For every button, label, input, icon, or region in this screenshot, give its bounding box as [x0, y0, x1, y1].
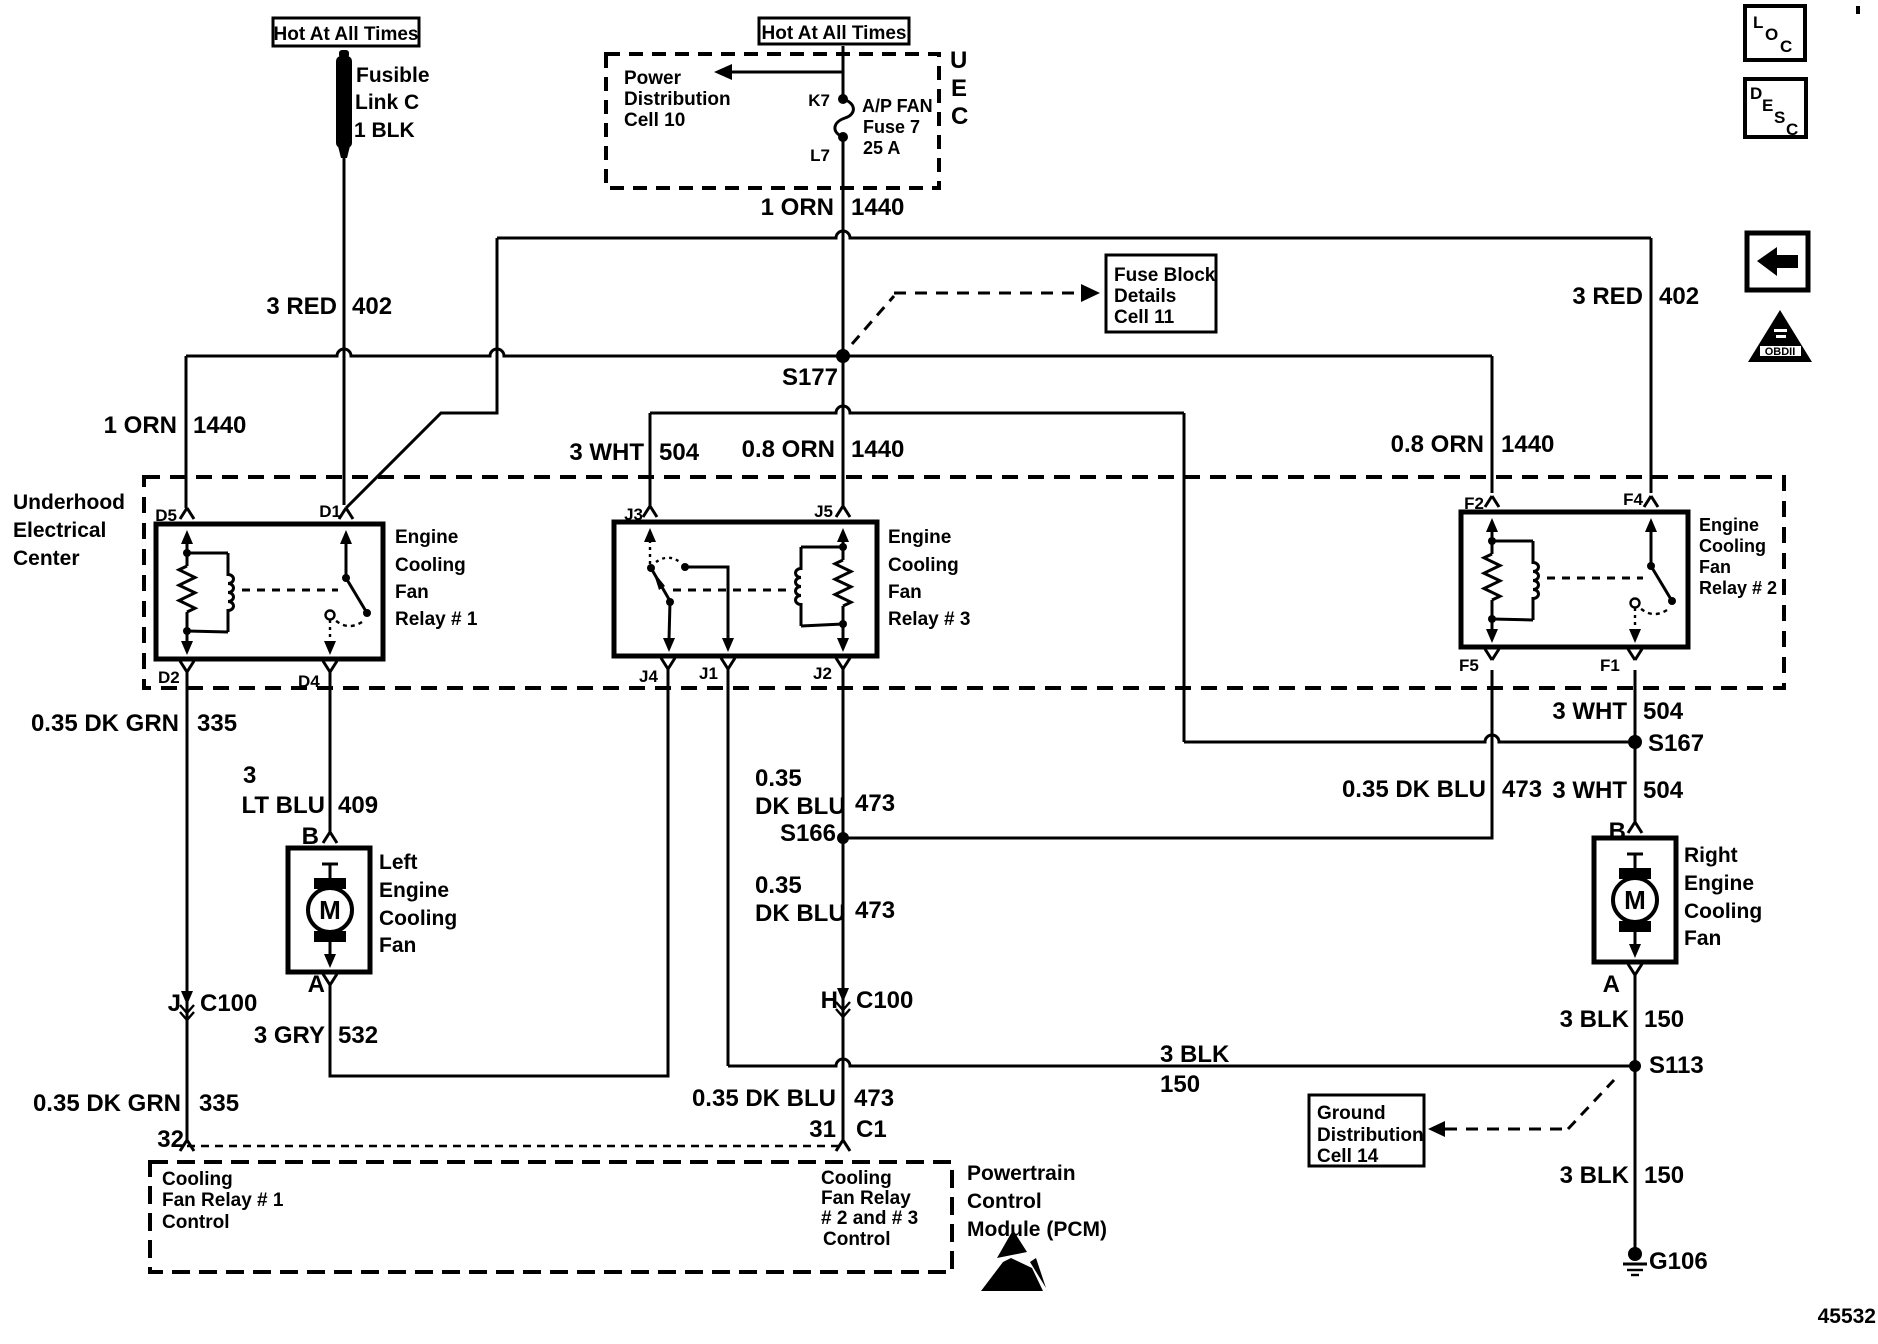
svg-text:Engine: Engine: [1699, 515, 1759, 535]
left fan pin B: [323, 832, 337, 843]
label 0.8 ORN 1440 (right): [1391, 431, 1555, 458]
label box Fuse Block Details Cell 11: [1106, 255, 1216, 332]
svg-text:Fuse 7: Fuse 7: [863, 117, 920, 137]
motor M: Left Engine Cooling Fan: [288, 848, 370, 972]
svg-text:Fuse Block: Fuse Block: [1114, 265, 1216, 286]
wire: right drop to relay2 F4: [1650, 238, 1653, 493]
svg-text:DK BLU: DK BLU: [755, 900, 846, 927]
svg-text:Cooling: Cooling: [379, 907, 457, 930]
label 0.35 DK BLU 473 (above S166): [755, 765, 895, 820]
svg-text:Cooling: Cooling: [162, 1169, 233, 1190]
Underhood Electrical Center dashed box: [144, 477, 1784, 688]
switch rest contact to J1: [656, 558, 681, 563]
svg-text:Cooling: Cooling: [821, 1168, 892, 1189]
wire: 3 RED 402 top horizontal run (D1/F4 feed): [497, 231, 1651, 238]
icon LOC box: [1745, 6, 1805, 60]
svg-text:Control: Control: [967, 1190, 1042, 1213]
svg-text:473: 473: [855, 790, 895, 817]
svg-text:Distribution: Distribution: [1317, 1125, 1424, 1146]
node S113: [1629, 1060, 1641, 1072]
ground G106: [1623, 1247, 1708, 1275]
svg-text:LT BLU: LT BLU: [241, 792, 325, 819]
svg-text:Ground: Ground: [1317, 1103, 1386, 1124]
svg-text:C: C: [951, 103, 968, 130]
svg-text:25 A: 25 A: [863, 138, 900, 158]
svg-text:335: 335: [197, 710, 237, 737]
label Cooling Fan Relay #1 Control: [162, 1169, 284, 1233]
wire: D2 down to PCM pin 32 (0.35 DK GRN 335): [186, 672, 189, 1140]
label Cooling Fan Relay #2 and #3 Control: [821, 1168, 918, 1250]
node S166: [837, 832, 849, 844]
relay K2: Engine Cooling Fan Relay #2 (reuse): [1461, 496, 1688, 660]
svg-text:Fan: Fan: [395, 582, 429, 603]
svg-text:J5: J5: [814, 502, 833, 521]
wire: 1 ORN 1440 fuse output down to S177 and on to relay3 J5: [842, 137, 845, 506]
svg-text:Cell 11: Cell 11: [1114, 307, 1175, 328]
wire: J2 down through S166, H C100 to PCM pin 31: [842, 668, 845, 1140]
relay switch: [644, 528, 656, 542]
wire: J1 down and right to S113 (3 BLK 150): [727, 668, 730, 1066]
svg-text:3 RED: 3 RED: [1572, 283, 1643, 310]
svg-text:1 ORN: 1 ORN: [104, 412, 177, 439]
svg-text:Center: Center: [13, 547, 80, 570]
arrow to Power Distribution: [714, 64, 843, 80]
svg-text:Cell 14: Cell 14: [1317, 1146, 1379, 1167]
svg-text:Link C: Link C: [355, 91, 419, 114]
relay3 pin labels: [624, 502, 833, 686]
label Power Distribution Cell 10: [624, 68, 731, 131]
label Powertrain Control Module (PCM): [967, 1162, 1107, 1241]
svg-text:150: 150: [1644, 1162, 1684, 1189]
svg-text:Fan: Fan: [888, 582, 922, 603]
svg-text:A: A: [308, 971, 325, 998]
wire: D4 down to left fan B (3 LT BLU 409): [329, 672, 332, 832]
svg-text:150: 150: [1160, 1071, 1200, 1098]
label 1 ORN 1440: [761, 194, 905, 221]
svg-text:O: O: [1765, 25, 1778, 44]
svg-text:0.35 DK BLU: 0.35 DK BLU: [692, 1085, 836, 1112]
svg-text:Left: Left: [379, 851, 418, 874]
svg-text:J4: J4: [639, 667, 658, 686]
pin J1 connector: [721, 658, 735, 669]
wire: right drop to relay2 F2 (0.8 ORN 1440): [1491, 356, 1494, 493]
svg-text:A: A: [1603, 971, 1620, 998]
svg-text:Cooling: Cooling: [395, 555, 466, 576]
svg-text:Fan: Fan: [379, 934, 416, 957]
svg-text:S113: S113: [1649, 1052, 1704, 1079]
svg-text:Cooling: Cooling: [1699, 536, 1766, 556]
node S177: [836, 349, 850, 363]
coil-side bottom pin: [180, 661, 194, 672]
svg-text:M: M: [1624, 885, 1646, 915]
dashed arrow Ground Distribution: [1428, 1080, 1614, 1137]
wire: 3 WHT 504 from J3 up, across, down to S167: [649, 413, 652, 506]
label 0.35 DK BLU 473 (F5): [1342, 776, 1542, 803]
svg-text:E: E: [951, 75, 967, 102]
label 3 WHT 504 (below S167): [1552, 777, 1683, 804]
actuation dashed link: [673, 589, 788, 592]
svg-text:S177: S177: [782, 364, 838, 391]
svg-text:L: L: [1753, 13, 1763, 32]
icon DESC box: [1745, 79, 1806, 139]
svg-text:1440: 1440: [851, 436, 904, 463]
svg-text:31: 31: [809, 1116, 836, 1143]
svg-text:E: E: [1762, 96, 1773, 115]
svg-text:OBDII: OBDII: [1765, 346, 1796, 358]
svg-text:J: J: [168, 990, 181, 1017]
svg-text:0.8 ORN: 0.8 ORN: [742, 436, 835, 463]
label Fusible Link C 1 BLK: [354, 64, 430, 142]
dashed arrow to Fuse Block Details: [852, 284, 1100, 344]
svg-text:Fan: Fan: [1684, 927, 1721, 950]
svg-text:D4: D4: [298, 672, 320, 691]
label Underhood Electrical Center: [13, 491, 125, 570]
svg-text:Cooling: Cooling: [888, 555, 959, 576]
svg-text:C100: C100: [856, 987, 913, 1014]
svg-text:H: H: [821, 987, 838, 1014]
svg-text:D5: D5: [155, 506, 177, 525]
svg-text:Hot At All Times: Hot At All Times: [274, 24, 419, 45]
svg-text:Cell 10: Cell 10: [624, 110, 685, 131]
svg-text:Fan Relay: Fan Relay: [821, 1188, 911, 1209]
icon warning triangle: [1748, 310, 1812, 362]
connector H C100: [821, 987, 914, 1017]
switch-side bottom pin: [323, 661, 337, 672]
wire: left drop + jog + diagonal to D1: [346, 238, 497, 508]
svg-text:473: 473: [855, 897, 895, 924]
svg-text:150: 150: [1644, 1006, 1684, 1033]
svg-text:3 BLK: 3 BLK: [1160, 1041, 1230, 1068]
svg-text:0.35 DK GRN: 0.35 DK GRN: [33, 1090, 181, 1117]
svg-text:Powertrain: Powertrain: [967, 1162, 1076, 1185]
svg-text:473: 473: [1502, 776, 1542, 803]
svg-text:Relay # 1: Relay # 1: [395, 609, 478, 630]
svg-text:Fan Relay # 1: Fan Relay # 1: [162, 1190, 284, 1211]
svg-text:1440: 1440: [851, 194, 904, 221]
svg-text:L7: L7: [810, 146, 830, 165]
relay K1: Engine Cooling Fan Relay #1: [156, 508, 383, 672]
svg-text:C: C: [1786, 120, 1798, 139]
switch-side top pin: [339, 508, 353, 519]
wire: S113 down to G106: [1634, 1066, 1637, 1250]
svg-text:S: S: [1774, 108, 1785, 127]
svg-text:Control: Control: [162, 1212, 230, 1233]
wire: battery feed into fuse box: [842, 46, 845, 99]
svg-text:335: 335: [199, 1090, 239, 1117]
relay switch: [340, 530, 352, 544]
label Engine Cooling Fan Relay #1: [395, 527, 478, 630]
UEC fuse block dashed box: [606, 54, 939, 188]
svg-text:0.8 ORN: 0.8 ORN: [1391, 431, 1484, 458]
svg-text:473: 473: [854, 1085, 894, 1112]
relay K3: Engine Cooling Fan Relay #3: [614, 506, 877, 669]
label box "Hot At All Times" (top middle): [759, 18, 909, 44]
svg-text:Relay # 2: Relay # 2: [1699, 578, 1777, 598]
relay coil: [187, 552, 228, 555]
label box Ground Distribution Cell 14: [1309, 1095, 1424, 1167]
label U E C: [950, 47, 968, 130]
PCM pin 32: [180, 1140, 194, 1151]
svg-text:3 BLK: 3 BLK: [1560, 1006, 1630, 1033]
svg-text:409: 409: [338, 792, 378, 819]
right fan pin B: [1628, 822, 1642, 833]
svg-text:F5: F5: [1459, 656, 1479, 675]
wire: left drop to relay1 D5: [185, 356, 188, 508]
svg-text:532: 532: [338, 1022, 378, 1049]
svg-text:3 WHT: 3 WHT: [569, 439, 644, 466]
right fan pin A: [1628, 964, 1642, 975]
pin J3 connector: [643, 506, 657, 517]
svg-text:Details: Details: [1114, 286, 1176, 307]
label Engine Cooling Fan Relay #3: [888, 527, 970, 630]
svg-text:A/P FAN: A/P FAN: [862, 96, 933, 116]
pin J4 connector: [661, 658, 675, 669]
ESD warning symbol: [981, 1230, 1046, 1291]
label 3 BLK 150 (fan A): [1560, 1006, 1684, 1033]
relay2 pin labels: [1459, 490, 1644, 675]
svg-text:402: 402: [1659, 283, 1699, 310]
svg-text:C1: C1: [856, 1116, 887, 1143]
wire: fusible link down to relay1 pin D1 (3 RED 402): [343, 156, 346, 505]
svg-text:C: C: [1780, 37, 1792, 56]
node L7: [838, 132, 848, 142]
svg-text:0.35: 0.35: [755, 765, 802, 792]
label 3 RED 402 (right): [1572, 283, 1699, 310]
svg-text:Cooling: Cooling: [1684, 900, 1762, 923]
svg-text:J1: J1: [699, 664, 718, 683]
svg-text:3 WHT: 3 WHT: [1552, 777, 1627, 804]
svg-text:M: M: [319, 895, 341, 925]
label Engine Cooling Fan Relay #2: [1699, 515, 1777, 598]
svg-text:45532: 45532: [1818, 1305, 1876, 1328]
svg-text:1440: 1440: [1501, 431, 1554, 458]
label 0.35 DK BLU 473 (above pin 31): [692, 1085, 894, 1112]
svg-text:Power: Power: [624, 68, 682, 89]
svg-text:D: D: [1750, 84, 1762, 103]
svg-text:J2: J2: [813, 664, 832, 683]
PCM dashed box: [150, 1162, 952, 1272]
fusible link C component: [336, 50, 352, 158]
wire: left fan A right to J4 (3 GRY 532): [330, 668, 668, 1076]
svg-text:Underhood: Underhood: [13, 491, 125, 514]
label 3 WHT 504 (above S167): [1552, 698, 1683, 725]
svg-text:S166: S166: [780, 820, 836, 847]
motor M: Right Engine Cooling Fan: [1594, 838, 1676, 962]
icon back-arrow box: [1747, 233, 1808, 290]
svg-text:# 2 and # 3: # 2 and # 3: [821, 1208, 918, 1229]
svg-text:C100: C100: [200, 990, 257, 1017]
pin J5 connector: [836, 506, 850, 517]
svg-text:504: 504: [1643, 698, 1684, 725]
svg-text:F1: F1: [1600, 656, 1620, 675]
svg-text:3 RED: 3 RED: [266, 293, 337, 320]
label 3 BLK 150 (to ground): [1560, 1162, 1684, 1189]
label 3 RED 402 (left): [266, 293, 392, 320]
svg-text:3 BLK: 3 BLK: [1560, 1162, 1630, 1189]
svg-text:F2: F2: [1464, 494, 1484, 513]
PCM connector dotted boundary: [187, 1145, 843, 1147]
wire: F1 to S167 to right fan B (3 WHT 504): [1634, 670, 1637, 824]
svg-text:32: 32: [157, 1126, 184, 1153]
svg-text:Engine: Engine: [888, 527, 951, 548]
svg-text:0.35: 0.35: [755, 872, 802, 899]
label 3 WHT 504 (J3): [569, 439, 699, 466]
label Right Engine Cooling Fan: [1684, 844, 1762, 950]
svg-text:504: 504: [659, 439, 700, 466]
svg-text:D2: D2: [158, 668, 180, 687]
label 3 BLK 150 (run): [1160, 1041, 1230, 1098]
svg-text:Right: Right: [1684, 844, 1738, 867]
svg-text:Module (PCM): Module (PCM): [967, 1218, 1107, 1241]
svg-text:Hot At All Times: Hot At All Times: [762, 23, 907, 44]
svg-text:Relay # 3: Relay # 3: [888, 609, 970, 630]
relay coil: [801, 546, 843, 549]
relay resistor: [186, 553, 189, 566]
svg-text:Engine: Engine: [379, 879, 449, 902]
svg-text:G106: G106: [1649, 1248, 1708, 1275]
label 3 GRY 532: [254, 1022, 378, 1049]
label box "Hot At All Times" (left): [273, 18, 419, 46]
relay resistor: [842, 547, 845, 560]
relay1 pin labels: [155, 502, 341, 691]
svg-text:DK BLU: DK BLU: [755, 793, 846, 820]
label A/P FAN Fuse 7 25 A: [862, 96, 933, 158]
svg-text:1 BLK: 1 BLK: [354, 119, 415, 142]
coil-side top pin: [180, 508, 194, 519]
svg-text:0.35 DK BLU: 0.35 DK BLU: [1342, 776, 1486, 803]
PCM pin 31 C1: [836, 1140, 850, 1151]
svg-text:Electrical: Electrical: [13, 519, 106, 542]
svg-text:F4: F4: [1623, 490, 1643, 509]
pin J2 connector: [836, 658, 850, 669]
left fan pin A: [323, 974, 337, 985]
wire: F5 down and left to S166 (0.35 DK BLU 473): [843, 670, 1492, 838]
svg-text:D1: D1: [319, 502, 341, 521]
svg-text:Engine: Engine: [1684, 872, 1754, 895]
actuation dashed link: [242, 589, 338, 592]
svg-text:B: B: [302, 823, 319, 850]
svg-text:K7: K7: [808, 91, 830, 110]
svg-text:3 GRY: 3 GRY: [254, 1022, 325, 1049]
label Left Engine Cooling Fan: [379, 851, 457, 957]
label 0.8 ORN 1440 (middle, J5): [742, 436, 905, 463]
label 1 ORN 1440 (left): [104, 412, 247, 439]
wire: S177 horizontal distribution (1 ORN / 0.8 ORN): [186, 349, 1492, 356]
svg-text:U: U: [950, 47, 967, 74]
wire: right fan A down to S113: [1634, 975, 1637, 1066]
svg-text:1440: 1440: [193, 412, 246, 439]
svg-text:402: 402: [352, 293, 392, 320]
svg-text:Distribution: Distribution: [624, 89, 731, 110]
svg-text:Fusible: Fusible: [356, 64, 430, 87]
svg-text:Fan: Fan: [1699, 557, 1731, 577]
node K7: [838, 94, 848, 104]
relay case: [614, 522, 877, 656]
label 0.35 DK GRN 335 (upper): [31, 710, 237, 737]
svg-text:1 ORN: 1 ORN: [761, 194, 834, 221]
relay case: [156, 524, 383, 659]
svg-text:3 WHT: 3 WHT: [1552, 698, 1627, 725]
svg-text:3: 3: [243, 762, 256, 789]
svg-text:504: 504: [1643, 777, 1684, 804]
svg-text:J3: J3: [624, 505, 643, 524]
connector J C100: [168, 990, 258, 1020]
node S167: [1628, 735, 1642, 749]
svg-text:0.35 DK GRN: 0.35 DK GRN: [31, 710, 179, 737]
label 0.35 DK GRN 335 (lower): [33, 1090, 239, 1117]
svg-text:Engine: Engine: [395, 527, 458, 548]
stray scan tick: [1856, 6, 1860, 14]
svg-text:S167: S167: [1648, 730, 1704, 757]
label 3 LT BLU 409: [241, 762, 378, 819]
fuse 7 element (A/P FAN 25A): [835, 99, 853, 137]
svg-text:B: B: [1609, 818, 1626, 845]
label 0.35 DK BLU 473 (below S166): [755, 872, 895, 927]
svg-text:Control: Control: [823, 1229, 891, 1250]
